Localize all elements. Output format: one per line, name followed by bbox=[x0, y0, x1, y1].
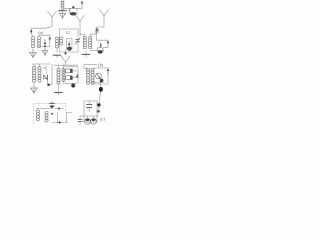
shield box dashed bbox=[34, 104, 66, 124]
wire L1 to ground bbox=[32, 48, 34, 52]
wire T2 to ground bbox=[56, 49, 58, 53]
resistor R1 bbox=[66, 69, 73, 73]
box amplifier unit bbox=[94, 68, 108, 84]
wire stub L4 bbox=[37, 109, 39, 111]
junction J6 bbox=[51, 113, 53, 115]
antenna A2 bbox=[99, 10, 108, 28]
box output unit bbox=[84, 101, 97, 122]
wire stub T4p bbox=[33, 64, 35, 67]
junction blob bbox=[96, 28, 99, 31]
junction blob J4 bbox=[71, 83, 75, 87]
wire b-far top bbox=[84, 64, 97, 66]
wire R1 out bbox=[73, 70, 78, 72]
resistor R2 bbox=[66, 76, 73, 80]
wire jack to c-box bbox=[99, 92, 100, 103]
inductor L2 choke bbox=[61, 0, 64, 9]
wire out bbox=[92, 82, 101, 84]
inductor T5 primary bbox=[57, 68, 60, 84]
inductor T6 secondary bbox=[91, 68, 94, 84]
svg-text:L2: L2 bbox=[65, 31, 70, 35]
wire c corner out bbox=[67, 113, 73, 123]
wire loop right bbox=[103, 46, 108, 47]
wire to jack bbox=[100, 83, 102, 87]
wire to L1 bbox=[31, 35, 33, 37]
wire tank bottom bbox=[39, 42, 50, 47]
inductor T6 primary bbox=[86, 68, 89, 84]
box load unit bbox=[64, 67, 79, 84]
arrow supply right bbox=[107, 68, 110, 75]
junction J1 bbox=[44, 45, 46, 47]
antenna A1 bbox=[47, 11, 56, 27]
wire stub tube B bbox=[93, 116, 95, 118]
capacitor C1 arm bbox=[44, 39, 47, 45]
diode D1 crystal bbox=[70, 12, 77, 15]
wire T4 to ground bbox=[33, 82, 35, 88]
junction J5 bbox=[51, 105, 54, 108]
wire T3 to node bbox=[90, 34, 96, 36]
antenna A3 bbox=[76, 15, 85, 36]
wire b-left top bbox=[32, 63, 50, 65]
arrow into A4 bbox=[64, 50, 67, 55]
inductor T2 primary bbox=[55, 37, 58, 48]
svg-text:(c): (c) bbox=[100, 117, 105, 122]
svg-text:(b): (b) bbox=[95, 30, 100, 34]
inductor T3 primary bbox=[83, 36, 86, 48]
wire C1 to ground bbox=[44, 47, 46, 51]
wire valve loop bbox=[67, 39, 73, 51]
transistor Q1 bbox=[96, 73, 102, 79]
tube V2 bbox=[97, 43, 103, 54]
wire loop top bbox=[97, 40, 109, 41]
ground G4 bbox=[53, 55, 61, 57]
ground G5 bbox=[82, 54, 90, 56]
wire to T3 bbox=[80, 33, 85, 36]
variable-cap arrow VC1 bbox=[49, 37, 52, 42]
wire corner T6 bbox=[84, 65, 88, 69]
wire loop bottom bbox=[90, 50, 104, 52]
svg-text:(b): (b) bbox=[98, 63, 104, 68]
ground G6 bbox=[31, 86, 38, 94]
ground G7 bbox=[54, 93, 62, 95]
terminal blob bbox=[97, 110, 100, 112]
wire stub tube A bbox=[87, 116, 89, 118]
arrow c bottom bbox=[57, 121, 62, 124]
wire after arrow bbox=[61, 108, 63, 110]
inductor L5 bbox=[45, 111, 48, 122]
wire c mid drop bbox=[57, 112, 59, 122]
wire diode down bbox=[47, 80, 49, 84]
jack blob bbox=[99, 87, 103, 92]
supply arrow B+ bbox=[81, 1, 84, 9]
wire top bus bbox=[63, 7, 82, 9]
tube V1 bbox=[67, 47, 72, 51]
antenna A4 bbox=[61, 56, 70, 65]
arrow up right bbox=[107, 41, 110, 47]
inductor T2 secondary bbox=[59, 37, 62, 45]
tube V5 bbox=[91, 118, 97, 124]
ground G2 bbox=[42, 48, 48, 56]
wire crystal left lead bbox=[68, 8, 70, 13]
capacitor C3 trimmer bbox=[75, 38, 80, 45]
wire stub T4s bbox=[39, 64, 41, 67]
tube V4 bbox=[85, 118, 91, 124]
ground G3 bbox=[59, 11, 65, 19]
wire b-right top bbox=[54, 64, 78, 66]
inductor T4 primary bbox=[32, 67, 35, 83]
inductor L1 primary bbox=[31, 37, 34, 48]
arrowhead input bbox=[30, 30, 33, 33]
wire crystal right lead bbox=[76, 8, 78, 13]
capacitor C6 bbox=[78, 116, 83, 126]
wire R2 out bbox=[73, 77, 78, 79]
inductor T5 secondary bbox=[62, 68, 65, 81]
arrow load bbox=[76, 73, 79, 78]
wire c top bbox=[36, 108, 52, 110]
wire stub T5s bbox=[63, 65, 65, 68]
wire tank top bbox=[39, 35, 50, 37]
junction J3 bbox=[47, 84, 50, 87]
svg-text:(a): (a) bbox=[38, 30, 44, 35]
capacitor C5 bbox=[86, 101, 92, 112]
wire c-right bus bbox=[80, 115, 98, 117]
box detector unit bbox=[59, 29, 78, 52]
tube V3 blob bbox=[100, 79, 104, 83]
wire input drop bbox=[30, 28, 32, 34]
ground G1 bbox=[30, 50, 37, 58]
wire blob stem bbox=[72, 83, 74, 84]
inductor T3 secondary bbox=[89, 36, 92, 48]
wire stub T5p bbox=[58, 65, 60, 68]
wire antenna A2 lead bbox=[97, 27, 105, 40]
junction J7 bbox=[97, 103, 100, 106]
wire choke to cap bbox=[62, 9, 64, 10]
wire antenna A1 lead bbox=[31, 27, 52, 29]
arrow c out bbox=[55, 107, 61, 110]
wire T5 to ground bbox=[58, 83, 60, 92]
wire c bottom bbox=[52, 121, 69, 123]
junction J2 bbox=[72, 6, 74, 8]
wire stub T6 bottom b bbox=[92, 83, 94, 85]
wire b mid drop bbox=[50, 64, 52, 85]
inductor L1 secondary bbox=[37, 37, 40, 48]
wire stub bbox=[69, 8, 71, 12]
capacitor C2 plate1 bbox=[58, 10, 66, 12]
arrow plate current bbox=[68, 41, 71, 47]
capacitor C4 bbox=[49, 101, 54, 109]
wire under J7 bbox=[98, 107, 100, 111]
inductor L4 bbox=[36, 110, 39, 121]
wire stub T6 bottom a bbox=[87, 83, 89, 85]
inductor T4 secondary bbox=[38, 67, 41, 83]
wire gnd stem bbox=[85, 51, 87, 55]
diode D2 detector bbox=[44, 66, 48, 80]
